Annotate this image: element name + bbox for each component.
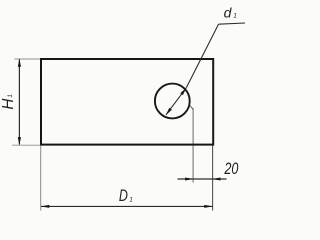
svg-text:H: H: [0, 98, 17, 109]
extension line from hole (20): [192, 108, 194, 183]
dimension line D1: [41, 205, 213, 207]
plate outline: [41, 59, 213, 145]
joint from hole edge to extension: [189, 105, 193, 110]
arrow D1 right: [204, 205, 213, 208]
svg-text:d: d: [224, 5, 233, 21]
svg-text:1: 1: [129, 196, 133, 203]
diameter line of hole: [166, 88, 186, 115]
extension tick bottom (H1): [12, 144, 43, 146]
leader shelf d1: [219, 23, 246, 24]
extension line right (D1 / 20): [212, 146, 214, 211]
label H1: [0, 94, 17, 109]
extension tick top (H1): [15, 58, 44, 60]
dimension line H1: [18, 60, 20, 145]
leader line d1: [186, 24, 218, 88]
arrow at lower-left of hole: [166, 108, 172, 115]
dimension line 20: [178, 178, 227, 180]
extension line left (D1): [40, 146, 42, 211]
arrow H1 top: [18, 59, 21, 67]
arrow D1 left: [41, 205, 50, 208]
svg-text:1: 1: [7, 94, 14, 97]
svg-text:1: 1: [233, 13, 237, 20]
svg-text:20: 20: [224, 160, 239, 178]
hole circle: [155, 84, 190, 119]
arrow H1 bottom: [18, 137, 21, 145]
arrow 20 left (outside, pointing right at extension): [185, 178, 193, 181]
svg-text:D: D: [119, 187, 128, 205]
arrow 20 right (outside, pointing left at extension): [212, 178, 220, 181]
arrow at upper-right of hole: [180, 88, 186, 95]
